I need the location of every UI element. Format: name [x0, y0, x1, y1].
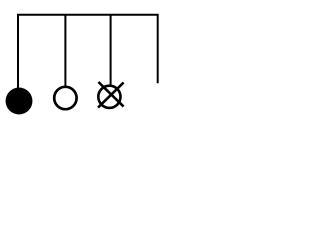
support frame: left string, top bar, right hanging wire	[18, 15, 158, 88]
wire	[64, 15, 66, 86]
lamp circle	[98, 86, 120, 108]
lamp X	[98, 82, 124, 108]
filled bob	[6, 88, 33, 115]
open bob	[54, 87, 76, 109]
wire	[110, 15, 112, 85]
